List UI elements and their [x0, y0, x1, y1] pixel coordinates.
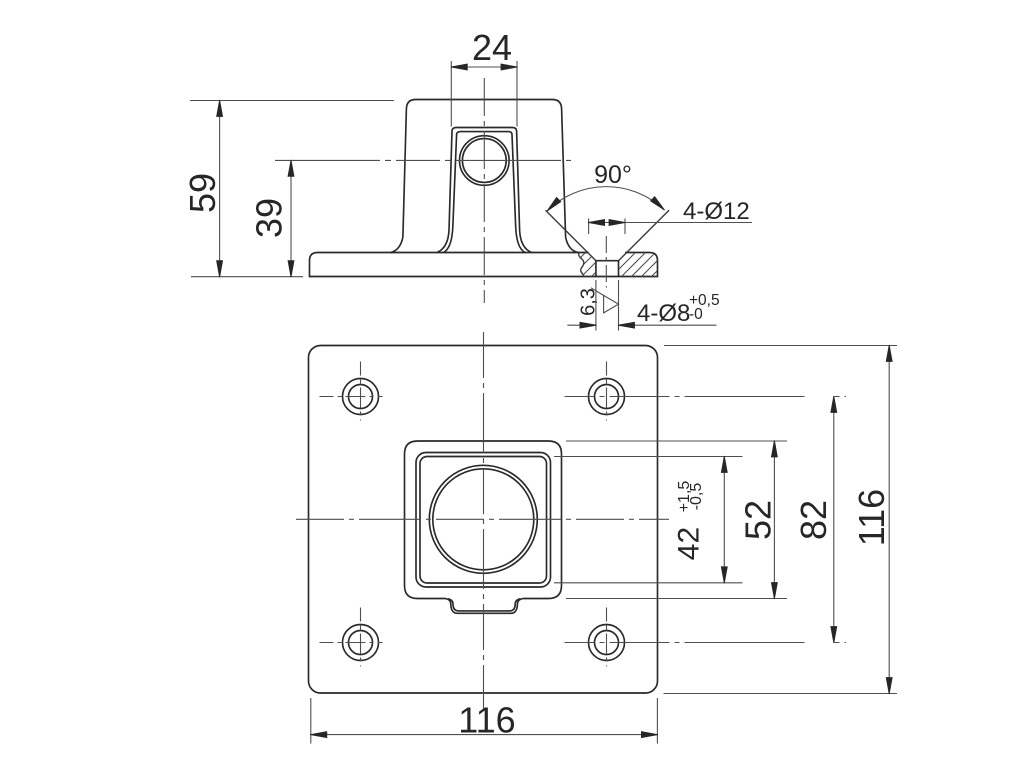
side view: socket top inner edge: [457, 132, 512, 135]
countersink left slope line: [546, 210, 596, 261]
dim 42 top extension line: [554, 456, 743, 458]
dim 116 right top extension line: [664, 345, 897, 347]
dim 4-O8 extension line left: [595, 280, 597, 331]
plan view: square plate outline: [309, 346, 658, 694]
plan view: bottom-left hole vertical centerline: [360, 608, 362, 667]
side view: cross hole outer circle: [460, 136, 510, 186]
plan view: top-left hole countersink circle: [343, 379, 379, 415]
svg-text:4-Ø12: 4-Ø12: [683, 198, 750, 225]
plan view: bottom-right hole countersink circle: [589, 625, 625, 661]
dim 116 right bottom extension line: [664, 693, 898, 695]
plan view: top-right hole countersink circle: [589, 379, 625, 415]
svg-text:52: 52: [737, 500, 778, 540]
countersink right slope line: [619, 210, 670, 261]
plan view: socket square outer contour: [416, 453, 551, 588]
dim 24 extension line left: [450, 61, 452, 127]
svg-text:116: 116: [851, 489, 892, 546]
plan view: center hole outer circle: [429, 465, 537, 573]
svg-text:90°: 90°: [594, 161, 632, 189]
dim 116 bottom left extension line: [310, 698, 312, 744]
plan view: socket square inner contour: [420, 457, 547, 584]
dim 4-O12 leader line: [625, 222, 752, 224]
dim 4-O12 extension line left: [588, 219, 590, 235]
svg-text:82: 82: [793, 500, 834, 540]
countersunk hole right edge: [618, 261, 620, 277]
section hatching: [561, 252, 686, 277]
dim 90 degree arc: [547, 187, 664, 211]
side view: socket left wall outer line: [437, 131, 452, 253]
dim 4-O8 dimension line right arrow: [619, 324, 717, 326]
plan view: top-right hole bore circle: [595, 385, 619, 409]
svg-text:-0: -0: [689, 306, 703, 323]
plan view: top-left hole vertical centerline: [360, 362, 362, 421]
dim 59 top extension line: [190, 100, 394, 102]
dim 4-O12 extension line right: [624, 219, 626, 235]
dim 82 dimension line: [833, 397, 835, 643]
plan view: center hole inner circle: [433, 469, 534, 570]
plan view: top-right hole horizontal centerline / 82 extension: [565, 396, 847, 398]
plan view: bottom-right hole bore circle: [595, 631, 619, 655]
side view: vertical centerline: [483, 78, 485, 303]
plan view: tab inner contour: [448, 599, 521, 611]
side view: socket top outer edge: [452, 128, 517, 132]
svg-text:24: 24: [472, 27, 512, 68]
dim 42 bottom extension line: [554, 582, 743, 584]
dim 52 top extension line: [566, 440, 787, 442]
surface roughness symbol triangle: [604, 295, 619, 313]
dim 116 right dimension line: [888, 346, 890, 694]
svg-text:42: 42: [673, 527, 706, 560]
plan view: boss outer square with bottom tab: [405, 441, 562, 613]
plan view: horizontal centerline: [296, 518, 669, 520]
plan view: bottom-right hole horizontal centerline / 82 extension: [565, 642, 847, 644]
plan view: top-left hole bore circle: [349, 385, 373, 409]
plan view: top-right hole vertical centerline: [606, 362, 608, 421]
dim 24 extension line right: [516, 61, 518, 127]
plan view: top-left hole horizontal centerline: [320, 396, 383, 398]
dim 42 dimension line: [723, 457, 725, 583]
dim 52 bottom extension line: [566, 598, 787, 600]
svg-text:4-Ø8: 4-Ø8: [637, 300, 690, 327]
svg-text:6,3: 6,3: [578, 288, 600, 316]
svg-text:116: 116: [458, 700, 515, 741]
dim 59/39 bottom extension line: [191, 276, 303, 278]
dim 4-O12 dimension line with arrows: [589, 222, 625, 224]
dim 116 bottom dimension line: [311, 734, 658, 736]
svg-text:59: 59: [182, 173, 223, 213]
plan view: bottom-left hole countersink circle: [343, 625, 379, 661]
plan view: bottom-right hole vertical centerline: [606, 608, 608, 667]
dim 39 dimension line: [290, 160, 292, 276]
dim 116 bottom right extension line: [656, 698, 658, 744]
countersink hole centerline: [605, 236, 607, 288]
countersunk hole left edge: [595, 261, 597, 277]
side view: socket right wall outer line: [517, 131, 532, 253]
plan view: bottom-left hole bore circle: [349, 631, 373, 655]
side view: cross hole inner circle: [462, 139, 506, 183]
side view: tapered body outline: [390, 100, 579, 253]
side view: base plate outline: [310, 253, 658, 277]
dim 4-O8 extension line right: [618, 280, 620, 331]
dim 52 dimension line: [773, 441, 775, 599]
plan view: bottom-left hole horizontal centerline: [320, 642, 383, 644]
plan view: vertical centerline: [483, 332, 485, 709]
surface roughness symbol leg: [591, 288, 604, 296]
side view: socket right wall inner line: [512, 135, 525, 253]
svg-text:-0,5: -0,5: [688, 483, 705, 511]
section break line: [579, 253, 584, 277]
dim 4-O8 dimension line left arrow: [567, 324, 596, 326]
side view: socket left wall inner line: [444, 135, 457, 253]
countersunk hole bottom of cone edge: [596, 260, 619, 262]
side view: horizontal centerline / 39 extension: [275, 159, 571, 161]
dim 59 dimension line: [219, 101, 221, 277]
dim 24 dimension line: [451, 66, 517, 68]
svg-text:39: 39: [249, 198, 290, 238]
